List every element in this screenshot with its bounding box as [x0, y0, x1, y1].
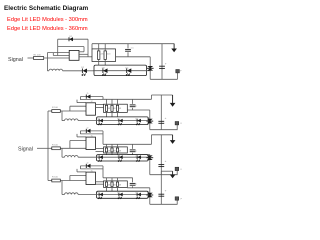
svg-text:Edge Lit LED Modules - 300mm: Edge Lit LED Modules - 300mm	[7, 17, 88, 23]
wire	[70, 140, 86, 142]
diode D1	[58, 36, 88, 41]
wire	[106, 152, 108, 155]
wire	[76, 100, 78, 103]
svg-text:68: 68	[108, 185, 110, 187]
upper rail 4	[161, 170, 172, 172]
resistor R21	[52, 107, 61, 112]
inductor L4	[62, 193, 97, 195]
resistor R44	[116, 182, 121, 187]
diode D31	[80, 128, 103, 134]
resistor R22	[105, 105, 110, 111]
svg-text:Signal: Signal	[8, 57, 23, 63]
wire	[151, 135, 153, 145]
wire	[97, 120, 149, 122]
svg-text:68: 68	[119, 185, 121, 187]
svg-text:68: 68	[108, 108, 110, 110]
svg-text:68: 68	[119, 151, 121, 153]
wire	[60, 180, 86, 182]
led D32	[98, 155, 103, 161]
capacitor C22	[158, 95, 166, 130]
wire	[48, 110, 52, 112]
signal label 1	[8, 57, 23, 63]
wire	[37, 147, 48, 149]
wire	[117, 152, 119, 155]
zener Z3	[146, 155, 153, 175]
ic U2	[86, 101, 96, 115]
wire	[76, 169, 78, 172]
svg-text:Edge Lit LED Modules - 360mm: Edge Lit LED Modules - 360mm	[7, 26, 88, 32]
wire	[79, 53, 88, 55]
wire	[117, 178, 119, 182]
supply arrow 1	[171, 44, 177, 53]
svg-text:68: 68	[113, 185, 115, 187]
capacitor C1	[125, 44, 134, 57]
wire	[47, 52, 69, 54]
resistor box 3	[104, 147, 128, 153]
svg-text:R 100: R 100	[52, 145, 59, 147]
wire	[44, 57, 69, 59]
led module box 1	[94, 65, 147, 76]
wire	[70, 105, 86, 107]
led module box 4	[97, 191, 149, 198]
svg-text:Signal: Signal	[18, 146, 33, 152]
wire	[102, 166, 104, 178]
wire	[106, 186, 108, 191]
wire	[96, 183, 104, 185]
wire	[57, 39, 59, 55]
led D2	[81, 67, 94, 75]
wire	[104, 44, 106, 51]
resistor box 4	[104, 181, 128, 188]
resistor R33	[111, 148, 116, 153]
wire	[117, 144, 119, 148]
resistor R1	[34, 54, 44, 59]
wire	[111, 152, 113, 155]
svg-text:+: +	[165, 159, 167, 163]
led D33	[117, 155, 122, 161]
wire	[60, 110, 86, 112]
resistor R23	[111, 105, 116, 111]
resistor R43	[111, 182, 116, 187]
wire	[106, 178, 108, 182]
led D3	[102, 67, 108, 75]
resistor R32	[105, 148, 110, 153]
wire	[61, 148, 63, 157]
wire	[96, 104, 104, 106]
zener Z4	[146, 188, 153, 205]
svg-text:+: +	[165, 189, 167, 193]
mid rail 3	[127, 154, 150, 156]
power rail 1	[92, 43, 174, 45]
mid rail 1	[116, 56, 151, 58]
wire	[99, 59, 106, 65]
resistor box 2	[104, 104, 128, 112]
bottom wire 3	[150, 174, 178, 176]
wire	[96, 150, 104, 152]
wire	[48, 180, 52, 182]
wire	[91, 44, 93, 49]
wire	[46, 53, 48, 71]
resistor R31	[52, 145, 61, 150]
wire	[151, 95, 153, 99]
wire	[70, 175, 86, 177]
svg-text:R 100: R 100	[52, 107, 59, 109]
capacitor C41	[130, 178, 138, 188]
subtitle red line 1	[7, 17, 88, 23]
wire	[111, 186, 113, 191]
wire	[117, 99, 119, 105]
svg-text:Electric Schematic Diagram: Electric Schematic Diagram	[4, 5, 89, 12]
resistor R24	[116, 105, 121, 111]
power rail 2	[103, 98, 152, 100]
mid rail 4	[127, 187, 150, 189]
subtitle red line 2	[7, 26, 88, 32]
bottom wire 2	[150, 129, 178, 131]
resistor box 1	[92, 49, 116, 62]
led D24	[136, 118, 141, 125]
led D34	[136, 155, 141, 161]
wire	[58, 47, 84, 52]
terminal F4	[175, 197, 183, 205]
wire	[111, 178, 113, 182]
wire	[79, 166, 81, 169]
diode D21	[80, 93, 103, 99]
wire	[106, 144, 108, 148]
svg-text:+: +	[165, 62, 167, 66]
resistor R3	[104, 51, 111, 60]
svg-text:68: 68	[108, 151, 110, 153]
wire	[79, 97, 81, 100]
wire	[87, 39, 89, 57]
wire	[28, 57, 34, 59]
supply arrow 4	[170, 171, 176, 178]
led D22	[98, 118, 103, 125]
wire	[61, 181, 63, 195]
mid rail 2	[127, 109, 150, 111]
wire	[98, 44, 100, 51]
terminal F2	[175, 122, 183, 130]
wire	[76, 134, 78, 137]
bottom wire 1	[150, 78, 177, 80]
wire	[79, 56, 92, 58]
wire	[96, 106, 104, 108]
wire	[102, 131, 104, 144]
capacitor C31	[130, 144, 138, 154]
wire	[102, 97, 104, 100]
wire	[69, 141, 71, 149]
capacitor C42	[158, 171, 166, 204]
led D4	[126, 67, 132, 75]
wire	[96, 181, 104, 183]
inductor L2	[62, 119, 97, 121]
wire	[106, 111, 108, 117]
svg-text:68: 68	[113, 108, 115, 110]
led D42	[98, 193, 103, 199]
upper rail 3	[152, 134, 173, 136]
inductor L1	[47, 69, 82, 71]
wire	[94, 70, 147, 72]
led D23	[117, 118, 122, 125]
wire	[148, 156, 150, 158]
wire	[80, 168, 103, 170]
capacitor C32	[158, 135, 166, 175]
power rail 3	[103, 143, 152, 145]
wire	[111, 99, 113, 105]
wire	[77, 136, 86, 138]
wire	[69, 106, 71, 111]
supply arrow 3	[170, 135, 176, 144]
wire	[61, 111, 63, 121]
led module box 2	[97, 117, 149, 125]
resistor R41	[52, 177, 61, 182]
wire	[77, 171, 86, 173]
wire	[79, 51, 84, 53]
zener Z1	[147, 57, 154, 80]
resistor R42	[105, 182, 110, 187]
power rail 4	[103, 177, 133, 179]
ic U1	[69, 50, 79, 60]
svg-text:R 100: R 100	[52, 177, 59, 179]
inductor L3	[62, 156, 97, 158]
bottom wire 4	[150, 203, 178, 205]
wire	[80, 99, 103, 101]
wire	[117, 111, 119, 117]
resistor R2	[98, 51, 105, 60]
wire	[60, 147, 86, 149]
terminal F3	[175, 167, 183, 175]
wire	[80, 133, 103, 135]
diode D41	[80, 163, 103, 169]
wire	[79, 131, 81, 134]
title text	[4, 5, 89, 12]
wire	[148, 194, 150, 196]
wire	[111, 111, 113, 117]
wire	[96, 148, 104, 150]
wire	[97, 156, 149, 158]
zener Z2	[146, 110, 153, 130]
signal label 2	[18, 146, 33, 152]
upper rail 2	[152, 94, 173, 96]
led D43	[117, 193, 122, 199]
svg-text:68: 68	[113, 151, 115, 153]
led D44	[136, 193, 141, 199]
wire	[106, 99, 108, 105]
resistor R34	[116, 148, 121, 153]
signal bus	[47, 111, 49, 181]
led module box 3	[97, 155, 149, 161]
wire	[53, 53, 69, 56]
supply arrow 2	[170, 95, 176, 107]
wire	[111, 144, 113, 148]
svg-text:+: +	[165, 116, 167, 120]
svg-text:68: 68	[119, 108, 121, 110]
wire	[147, 70, 151, 72]
ic U3	[86, 135, 96, 149]
wire	[97, 194, 149, 196]
wire	[48, 147, 52, 149]
wire	[69, 176, 71, 181]
capacitor C2	[159, 44, 167, 80]
wire	[77, 102, 86, 104]
ic U4	[86, 170, 96, 184]
svg-text:R1 100: R1 100	[34, 54, 42, 56]
wire	[148, 120, 150, 122]
capacitor C21	[130, 99, 138, 110]
wire	[117, 186, 119, 191]
terminal F1	[176, 70, 183, 80]
